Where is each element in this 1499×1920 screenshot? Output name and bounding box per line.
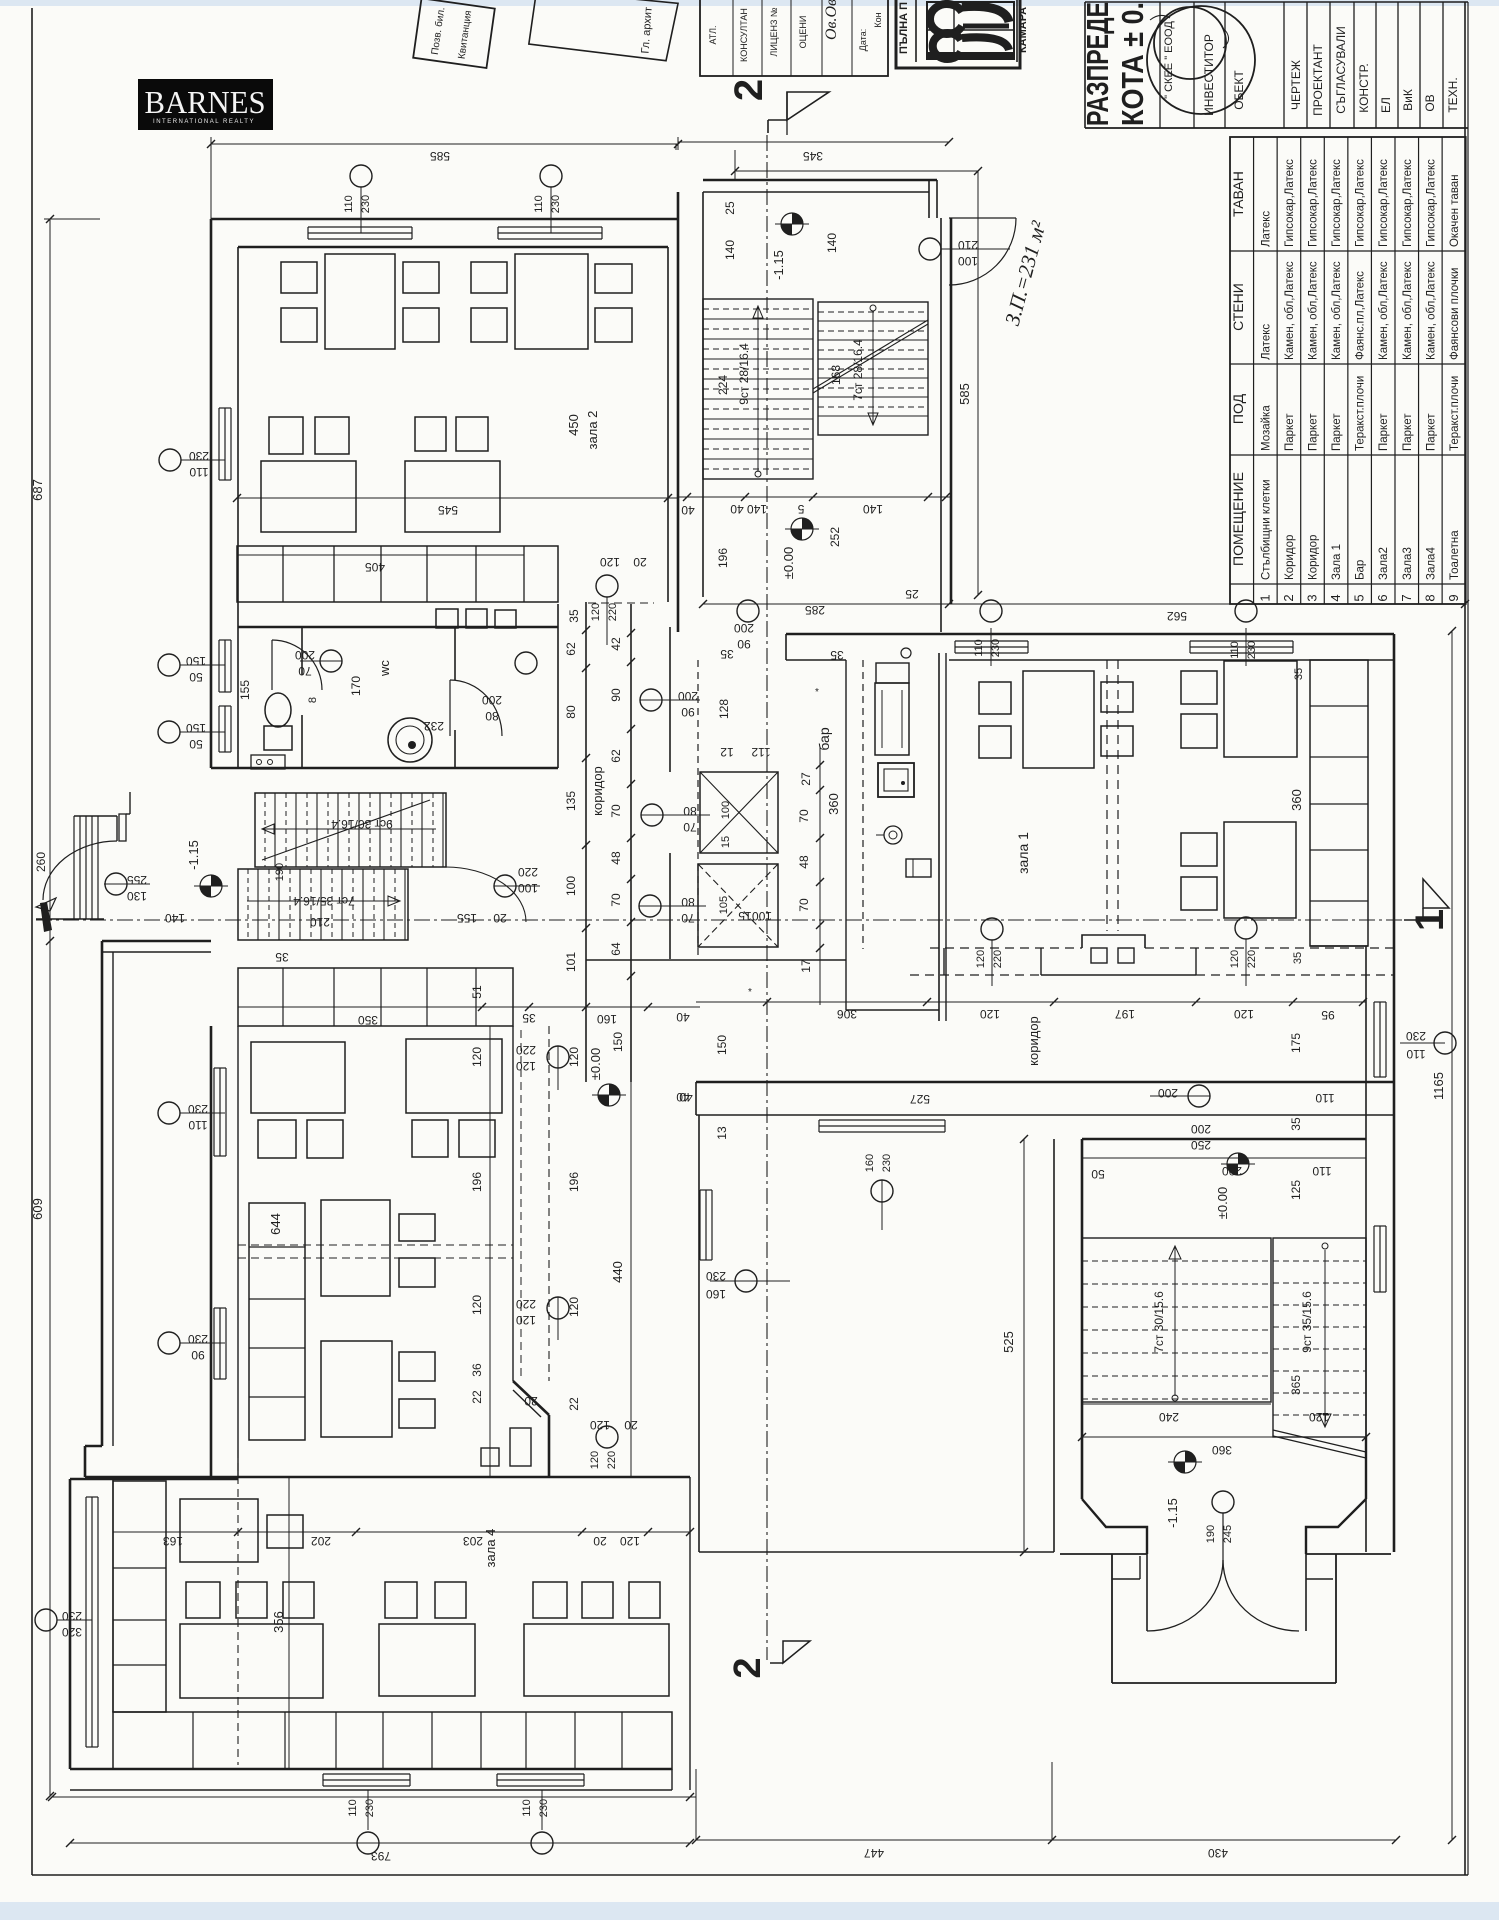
svg-text:Зала 1: Зала 1 bbox=[1331, 544, 1343, 580]
dims around top stairs bbox=[675, 144, 677, 150]
svg-text:90: 90 bbox=[609, 688, 623, 702]
svg-text:50: 50 bbox=[189, 670, 203, 684]
svg-text:350: 350 bbox=[358, 1013, 378, 1027]
svg-text:35: 35 bbox=[1293, 668, 1305, 680]
svg-text:120: 120 bbox=[589, 1451, 601, 1469]
entry porch left bbox=[73, 816, 75, 919]
svg-text:128: 128 bbox=[717, 699, 731, 719]
svg-text:200: 200 bbox=[678, 689, 698, 703]
svg-text:*: * bbox=[748, 987, 752, 998]
svg-text:9: 9 bbox=[1446, 594, 1461, 601]
wc door arcs bbox=[272, 640, 322, 690]
svg-text:Паркет: Паркет bbox=[1378, 413, 1390, 451]
svg-text:230: 230 bbox=[188, 1102, 208, 1116]
svg-text:120: 120 bbox=[590, 603, 602, 621]
svg-text:245: 245 bbox=[1222, 1525, 1234, 1543]
svg-text:Камен, обл,Латекс: Камен, обл,Латекс bbox=[1307, 261, 1319, 360]
svg-text:170: 170 bbox=[349, 676, 363, 696]
left outer wall lower bbox=[101, 941, 104, 1446]
svg-text:wc: wc bbox=[377, 660, 392, 677]
svg-text:220: 220 bbox=[518, 865, 538, 879]
svg-text:Коридор: Коридор bbox=[1307, 535, 1319, 580]
svg-text:163: 163 bbox=[163, 1534, 183, 1548]
svg-text:140: 140 bbox=[165, 911, 185, 925]
svg-text:110: 110 bbox=[189, 465, 208, 479]
svg-text:Гипсокар,Латекс: Гипсокар,Латекс bbox=[1355, 159, 1367, 247]
svg-text:INTERNATIONAL REALTY: INTERNATIONAL REALTY bbox=[153, 119, 255, 125]
svg-text:140: 140 bbox=[863, 502, 883, 516]
svg-text:232: 232 bbox=[424, 719, 444, 733]
svg-text:525: 525 bbox=[1001, 1331, 1016, 1353]
floor drain bbox=[388, 718, 432, 762]
svg-text:коридор: коридор bbox=[590, 766, 605, 816]
svg-text:Фаянсови плочки: Фаянсови плочки bbox=[1449, 268, 1461, 360]
svg-text:527: 527 bbox=[910, 1092, 930, 1106]
svg-text:440: 440 bbox=[610, 1261, 625, 1283]
zala2 bench row bbox=[237, 546, 558, 602]
svg-text:220: 220 bbox=[606, 1451, 618, 1469]
svg-text:230: 230 bbox=[538, 1799, 550, 1817]
svg-text:15: 15 bbox=[720, 836, 732, 848]
svg-text:140: 140 bbox=[723, 240, 737, 260]
svg-text:6: 6 bbox=[1375, 594, 1390, 601]
svg-text:Гипсокар,Латекс: Гипсокар,Латекс bbox=[1331, 159, 1343, 247]
svg-text:4: 4 bbox=[1328, 594, 1343, 601]
svg-text:ЛИЦЕНЗ №: ЛИЦЕНЗ № bbox=[769, 7, 779, 56]
stair block top dims bbox=[1227, 1153, 1249, 1175]
svg-text:120: 120 bbox=[980, 1007, 1000, 1021]
svg-text:120: 120 bbox=[516, 1059, 536, 1073]
svg-text:зала 2: зала 2 bbox=[585, 411, 600, 450]
svg-text:17: 17 bbox=[799, 959, 813, 973]
stamp C (license) bbox=[700, 0, 888, 76]
svg-text:110: 110 bbox=[347, 1799, 359, 1817]
svg-text:Тоалетна: Тоалетна bbox=[1449, 530, 1461, 580]
svg-text:120: 120 bbox=[567, 1047, 581, 1067]
svg-text:360: 360 bbox=[1289, 789, 1304, 811]
svg-text:196: 196 bbox=[716, 548, 730, 568]
svg-text:Гипсокар,Латекс: Гипсокар,Латекс bbox=[1284, 159, 1296, 247]
svg-text:2: 2 bbox=[727, 1657, 769, 1678]
svg-text:9ст 30/16.4: 9ст 30/16.4 bbox=[331, 817, 393, 831]
svg-text:447: 447 bbox=[864, 1846, 884, 1860]
zala4 labels/dims bbox=[113, 1531, 690, 1533]
svg-text:КОНСТР.: КОНСТР. bbox=[1357, 63, 1371, 113]
svg-text:120: 120 bbox=[590, 1418, 610, 1432]
round stamp bbox=[1154, 7, 1226, 79]
svg-text:252: 252 bbox=[828, 527, 842, 547]
svg-text:687: 687 bbox=[30, 479, 45, 501]
svg-text:80: 80 bbox=[681, 895, 695, 909]
zala1 dashed centerlines bbox=[1106, 660, 1108, 931]
svg-text:5: 5 bbox=[1352, 594, 1367, 601]
svg-text:ПОМЕЩЕНИЕ: ПОМЕЩЕНИЕ bbox=[1230, 472, 1246, 566]
svg-text:365: 365 bbox=[1289, 1375, 1303, 1395]
svg-text:Стълбищни клетки: Стълбищни клетки bbox=[1260, 479, 1272, 580]
stair block walls bbox=[1082, 1138, 1366, 1141]
vestibule bbox=[1111, 1554, 1113, 1683]
svg-text:140: 140 bbox=[747, 502, 767, 516]
svg-text:36: 36 bbox=[470, 1363, 484, 1377]
svg-text:40: 40 bbox=[730, 502, 744, 516]
zala3 left bench bbox=[249, 1203, 305, 1440]
svg-text:Мозайка: Мозайка bbox=[1260, 405, 1272, 451]
svg-text:1165: 1165 bbox=[1431, 1072, 1446, 1100]
svg-text:585: 585 bbox=[957, 383, 972, 405]
svg-text:Ов.Ов: Ов.Ов bbox=[823, 0, 840, 40]
svg-text:Зала2: Зала2 bbox=[1378, 547, 1390, 580]
svg-text:ОВ: ОВ bbox=[1423, 94, 1437, 111]
svg-text:Паркет: Паркет bbox=[1331, 413, 1343, 451]
svg-text:80: 80 bbox=[564, 705, 578, 719]
zala3 top bench bbox=[238, 968, 513, 1026]
svg-text:200: 200 bbox=[1191, 1122, 1211, 1136]
svg-text:7ст 35/16.4: 7ст 35/16.4 bbox=[293, 894, 355, 908]
svg-text:140: 140 bbox=[825, 233, 839, 253]
svg-text:90: 90 bbox=[737, 637, 751, 651]
svg-text:793: 793 bbox=[371, 1849, 391, 1863]
svg-text:35: 35 bbox=[1292, 952, 1304, 964]
svg-text:110: 110 bbox=[533, 195, 545, 213]
svg-text:40: 40 bbox=[681, 503, 695, 517]
level marker -1.15 bbox=[781, 213, 803, 235]
svg-text:Бар: Бар bbox=[1355, 560, 1367, 580]
svg-text:±0.00: ±0.00 bbox=[1215, 1187, 1230, 1219]
svg-text:9ст 28/16.4: 9ст 28/16.4 bbox=[737, 343, 751, 405]
svg-text:155: 155 bbox=[238, 680, 252, 700]
svg-text:230: 230 bbox=[1246, 641, 1258, 659]
svg-text:120: 120 bbox=[516, 1313, 536, 1327]
svg-text:230: 230 bbox=[360, 195, 372, 213]
svg-text:коридор: коридор bbox=[1026, 1016, 1041, 1066]
svg-text:285: 285 bbox=[805, 603, 825, 617]
svg-text:175: 175 bbox=[1289, 1033, 1303, 1053]
dim 525 bbox=[1023, 1139, 1025, 1552]
toilet bbox=[265, 693, 291, 727]
bar counter bbox=[845, 660, 847, 1010]
svg-text:230: 230 bbox=[706, 1269, 726, 1283]
svg-text:Камен, обл,Латекс: Камен, обл,Латекс bbox=[1284, 261, 1296, 360]
svg-text:7ст 30/15.6: 7ст 30/15.6 bbox=[1152, 1291, 1166, 1353]
svg-text:160: 160 bbox=[597, 1012, 617, 1026]
svg-text:15: 15 bbox=[738, 909, 752, 923]
svg-text:110: 110 bbox=[1406, 1047, 1425, 1061]
svg-text:120: 120 bbox=[600, 555, 620, 569]
svg-text:200: 200 bbox=[734, 621, 754, 635]
zala4 bottom windows bbox=[323, 1773, 410, 1775]
svg-text:120: 120 bbox=[470, 1295, 484, 1315]
svg-text:8: 8 bbox=[307, 697, 319, 703]
svg-text:150: 150 bbox=[186, 721, 206, 735]
svg-text:70: 70 bbox=[298, 664, 312, 678]
svg-text:35: 35 bbox=[830, 648, 844, 662]
svg-text:255: 255 bbox=[127, 873, 147, 887]
svg-text:22: 22 bbox=[567, 1397, 581, 1411]
svg-text:110: 110 bbox=[521, 1799, 533, 1817]
svg-text:190: 190 bbox=[1205, 1525, 1217, 1543]
svg-text:-1.15: -1.15 bbox=[771, 250, 786, 280]
bottom dims 447 430 bbox=[696, 1839, 1396, 1841]
diagonal wall bbox=[513, 1381, 549, 1415]
svg-text:50: 50 bbox=[189, 737, 203, 751]
svg-text:20: 20 bbox=[633, 555, 647, 569]
zala2 furniture bbox=[325, 254, 395, 349]
svg-text:200: 200 bbox=[295, 648, 315, 662]
svg-text:±0.00: ±0.00 bbox=[781, 547, 796, 579]
svg-text:Теракст.плочи: Теракст.плочи bbox=[1355, 376, 1367, 451]
svg-text:35: 35 bbox=[720, 647, 734, 661]
zala4 benches bbox=[113, 1481, 166, 1712]
svg-text:Гипсокар,Латекс: Гипсокар,Латекс bbox=[1402, 159, 1414, 247]
small rects bottom bbox=[481, 1448, 499, 1466]
svg-text:100: 100 bbox=[752, 909, 772, 923]
bottom dim line 793 bbox=[52, 1796, 696, 1798]
svg-text:90: 90 bbox=[191, 1348, 205, 1362]
svg-text:Камен, обл,Латекс: Камен, обл,Латекс bbox=[1378, 261, 1390, 360]
svg-text:Паркет: Паркет bbox=[1307, 413, 1319, 451]
zala3 tables top bbox=[251, 1042, 345, 1113]
title block bbox=[1084, 2, 1086, 128]
svg-text:345: 345 bbox=[803, 149, 823, 163]
svg-text:200: 200 bbox=[1158, 1086, 1178, 1100]
svg-text:110: 110 bbox=[188, 1118, 207, 1132]
finish table bbox=[1230, 137, 1466, 604]
svg-text:220: 220 bbox=[992, 950, 1004, 968]
svg-text:356: 356 bbox=[271, 1611, 286, 1633]
svg-text:РАЗПРЕДЕ: РАЗПРЕДЕ bbox=[1080, 2, 1115, 126]
svg-text:220: 220 bbox=[607, 603, 619, 621]
svg-text:ЧЕРТЕЖ: ЧЕРТЕЖ bbox=[1289, 60, 1303, 110]
svg-text:220: 220 bbox=[516, 1297, 536, 1311]
svg-text:40: 40 bbox=[676, 1010, 690, 1024]
svg-text:12: 12 bbox=[720, 745, 734, 759]
svg-text:Паркет: Паркет bbox=[1284, 413, 1296, 451]
svg-text:150: 150 bbox=[611, 1032, 625, 1052]
svg-text:СТЕНИ: СТЕНИ bbox=[1230, 283, 1246, 331]
svg-text:2: 2 bbox=[727, 79, 771, 101]
svg-text:20: 20 bbox=[493, 911, 507, 925]
svg-text:260: 260 bbox=[34, 852, 48, 872]
svg-text:22: 22 bbox=[470, 1390, 484, 1404]
svg-text:62: 62 bbox=[564, 642, 578, 656]
svg-text:100: 100 bbox=[564, 876, 578, 896]
svg-text:450: 450 bbox=[566, 414, 581, 436]
svg-text:135: 135 bbox=[564, 791, 578, 811]
svg-text:230: 230 bbox=[1406, 1029, 1426, 1043]
zala4 furniture bbox=[180, 1499, 258, 1562]
stamp B (architect) bbox=[528, 0, 678, 61]
svg-text:Камен, обл,Латекс: Камен, обл,Латекс bbox=[1425, 261, 1437, 360]
svg-text:Гипсокар,Латекс: Гипсокар,Латекс bbox=[1425, 159, 1437, 247]
svg-text:35: 35 bbox=[567, 609, 581, 623]
svg-text:Кон: Кон bbox=[873, 12, 883, 27]
svg-text:120: 120 bbox=[620, 1534, 640, 1548]
svg-text:Коридор: Коридор bbox=[1284, 535, 1296, 580]
svg-text:7ст 28/16.4: 7ст 28/16.4 bbox=[851, 339, 865, 401]
svg-text:230: 230 bbox=[550, 195, 562, 213]
svg-text:2: 2 bbox=[1281, 594, 1296, 601]
svg-text:±0.00: ±0.00 bbox=[588, 1048, 603, 1080]
shafts with X bbox=[700, 772, 778, 853]
svg-text:220: 220 bbox=[516, 1043, 536, 1057]
svg-text:КОНСУЛТАН: КОНСУЛТАН bbox=[739, 8, 749, 62]
svg-text:230: 230 bbox=[990, 639, 1002, 657]
svg-text:644: 644 bbox=[268, 1213, 283, 1235]
svg-text:Паркет: Паркет bbox=[1425, 413, 1437, 451]
1165 dim bbox=[1451, 631, 1453, 1840]
section flag 1 right bbox=[1423, 879, 1449, 908]
svg-text:1: 1 bbox=[1257, 594, 1272, 601]
svg-text:-1.15: -1.15 bbox=[1165, 1498, 1180, 1528]
centerline section 2-2 vertical bbox=[766, 135, 768, 1660]
entrance bbox=[1082, 1436, 1366, 1438]
terrace dim 585 bbox=[977, 171, 979, 595]
svg-text:25: 25 bbox=[723, 201, 737, 215]
svg-text:545: 545 bbox=[438, 503, 458, 517]
svg-text:Латекс: Латекс bbox=[1260, 211, 1272, 247]
svg-text:360: 360 bbox=[826, 793, 841, 815]
svg-text:120: 120 bbox=[1309, 1410, 1329, 1424]
svg-text:585: 585 bbox=[430, 149, 450, 163]
svg-text:120: 120 bbox=[975, 950, 987, 968]
svg-text:101: 101 bbox=[564, 952, 578, 972]
svg-text:20: 20 bbox=[593, 1534, 607, 1548]
stamp D (black chamber logo) bbox=[896, 0, 1020, 68]
svg-text:110: 110 bbox=[1312, 1164, 1331, 1178]
svg-text:64: 64 bbox=[609, 942, 623, 956]
svg-text:203: 203 bbox=[463, 1534, 483, 1548]
svg-text:ВиК: ВиК bbox=[1401, 89, 1415, 111]
svg-text:20: 20 bbox=[624, 1418, 638, 1432]
section line 1-1 horizontal bbox=[36, 919, 1408, 921]
svg-text:Окачен таван: Окачен таван bbox=[1449, 174, 1461, 247]
dim line 687 left bbox=[49, 219, 51, 1796]
svg-text:Дата:: Дата: bbox=[858, 29, 868, 51]
svg-text:51: 51 bbox=[470, 985, 484, 999]
svg-text:-1.15: -1.15 bbox=[186, 840, 201, 870]
svg-text:КАМАРА: КАМАРА bbox=[1017, 7, 1029, 53]
svg-text:160: 160 bbox=[706, 1287, 726, 1301]
svg-text:АТЛ.: АТЛ. bbox=[708, 25, 718, 44]
svg-text:70: 70 bbox=[683, 820, 697, 834]
svg-text:9ст 35/15.6: 9ст 35/15.6 bbox=[1300, 1291, 1314, 1353]
svg-text:35: 35 bbox=[1289, 1117, 1303, 1131]
svg-text:90: 90 bbox=[681, 705, 695, 719]
svg-text:48: 48 bbox=[797, 855, 811, 869]
svg-text:КОТА ± 0.: КОТА ± 0. bbox=[1115, 2, 1150, 126]
page frame bbox=[31, 8, 33, 1875]
svg-text:190: 190 bbox=[274, 863, 286, 881]
zala3 right corridor dims bbox=[489, 1026, 491, 1477]
svg-text:112: 112 bbox=[751, 745, 770, 759]
svg-text:7: 7 bbox=[1399, 594, 1414, 601]
svg-text:Теракст.плочи: Теракст.плочи bbox=[1449, 376, 1461, 451]
svg-text:25: 25 bbox=[905, 587, 919, 601]
svg-text:405: 405 bbox=[365, 560, 385, 574]
svg-text:Фаянс.пл,Латекс: Фаянс.пл,Латекс bbox=[1355, 271, 1367, 360]
svg-text:ЕЛ: ЕЛ bbox=[1379, 97, 1393, 113]
scan edge strips bbox=[0, 0, 1499, 6]
zala3 mid tables bbox=[321, 1200, 390, 1296]
svg-text:13: 13 bbox=[715, 1126, 729, 1140]
svg-text:230: 230 bbox=[189, 449, 209, 463]
svg-text:70: 70 bbox=[681, 911, 695, 925]
svg-text:125: 125 bbox=[1289, 1180, 1303, 1200]
svg-text:27: 27 bbox=[799, 772, 813, 786]
svg-text:8: 8 bbox=[1422, 594, 1437, 601]
svg-text:35: 35 bbox=[522, 1011, 536, 1025]
svg-text:1: 1 bbox=[1408, 909, 1452, 931]
stamp A (tilted small) bbox=[413, 0, 495, 68]
svg-text:ИНВЕСТИТОР: ИНВЕСТИТОР bbox=[1202, 34, 1216, 116]
svg-text:110: 110 bbox=[343, 195, 355, 213]
zala2 dims bbox=[237, 497, 678, 499]
svg-text:105: 105 bbox=[718, 896, 730, 914]
svg-text:ТАВАН: ТАВАН bbox=[1230, 171, 1246, 217]
svg-text:360: 360 bbox=[1212, 1443, 1232, 1457]
svg-text:100: 100 bbox=[720, 801, 732, 819]
svg-text:110: 110 bbox=[1315, 1091, 1334, 1105]
svg-text:*: * bbox=[815, 687, 819, 698]
svg-text:120: 120 bbox=[1234, 1007, 1254, 1021]
svg-text:бар: бар bbox=[816, 727, 832, 750]
svg-text:Камен, обл,Латекс: Камен, обл,Латекс bbox=[1331, 261, 1343, 360]
svg-text:200: 200 bbox=[482, 693, 502, 707]
svg-text:200: 200 bbox=[1222, 1164, 1242, 1178]
svg-text:306: 306 bbox=[837, 1007, 857, 1021]
svg-text:230: 230 bbox=[62, 1609, 82, 1623]
svg-text:70: 70 bbox=[797, 809, 811, 823]
svg-text:320: 320 bbox=[62, 1625, 82, 1639]
svg-text:130: 130 bbox=[127, 889, 147, 903]
zigzag parapet bbox=[1082, 935, 1145, 948]
svg-text:ПРОЕКТАНТ: ПРОЕКТАНТ bbox=[1311, 44, 1325, 116]
svg-text:230: 230 bbox=[364, 1799, 376, 1817]
svg-text:230: 230 bbox=[188, 1332, 208, 1346]
svg-text:70: 70 bbox=[797, 898, 811, 912]
svg-text:110: 110 bbox=[1229, 641, 1241, 659]
wc sink bbox=[251, 755, 285, 769]
svg-text:150: 150 bbox=[715, 1035, 729, 1055]
svg-text:562: 562 bbox=[1167, 609, 1187, 623]
svg-text:ОЦЕНИ: ОЦЕНИ bbox=[798, 16, 808, 49]
svg-text:50: 50 bbox=[1091, 1167, 1105, 1181]
svg-text:430: 430 bbox=[1208, 1846, 1228, 1860]
svg-text:Гипсокар,Латекс: Гипсокар,Латекс bbox=[1307, 159, 1319, 247]
svg-text:120: 120 bbox=[567, 1297, 581, 1317]
svg-text:224: 224 bbox=[716, 375, 730, 395]
svg-text:зала 4: зала 4 bbox=[483, 1529, 498, 1568]
svg-text:100: 100 bbox=[958, 254, 978, 268]
svg-text:80: 80 bbox=[683, 804, 697, 818]
svg-text:120: 120 bbox=[1229, 950, 1241, 968]
svg-text:100: 100 bbox=[518, 881, 538, 895]
zala2 column circles bbox=[350, 165, 372, 187]
svg-text:" СКЕЕ " ЕООД: " СКЕЕ " ЕООД bbox=[1163, 21, 1175, 99]
svg-text:Гипсокар,Латекс: Гипсокар,Латекс bbox=[1378, 159, 1390, 247]
svg-text:230: 230 bbox=[881, 1154, 893, 1172]
svg-text:Камен, обл,Латекс: Камен, обл,Латекс bbox=[1402, 261, 1414, 360]
svg-text:40: 40 bbox=[676, 1090, 690, 1104]
svg-text:155: 155 bbox=[457, 911, 477, 925]
svg-text:150: 150 bbox=[186, 654, 206, 668]
svg-text:зала 1: зала 1 bbox=[1015, 832, 1031, 874]
svg-text:196: 196 bbox=[470, 1172, 484, 1192]
svg-text:5: 5 bbox=[797, 502, 804, 516]
BARNES logo bbox=[138, 79, 273, 130]
svg-text:ПЪЛНА П: ПЪЛНА П bbox=[898, 2, 910, 54]
svg-text:42: 42 bbox=[609, 637, 623, 651]
